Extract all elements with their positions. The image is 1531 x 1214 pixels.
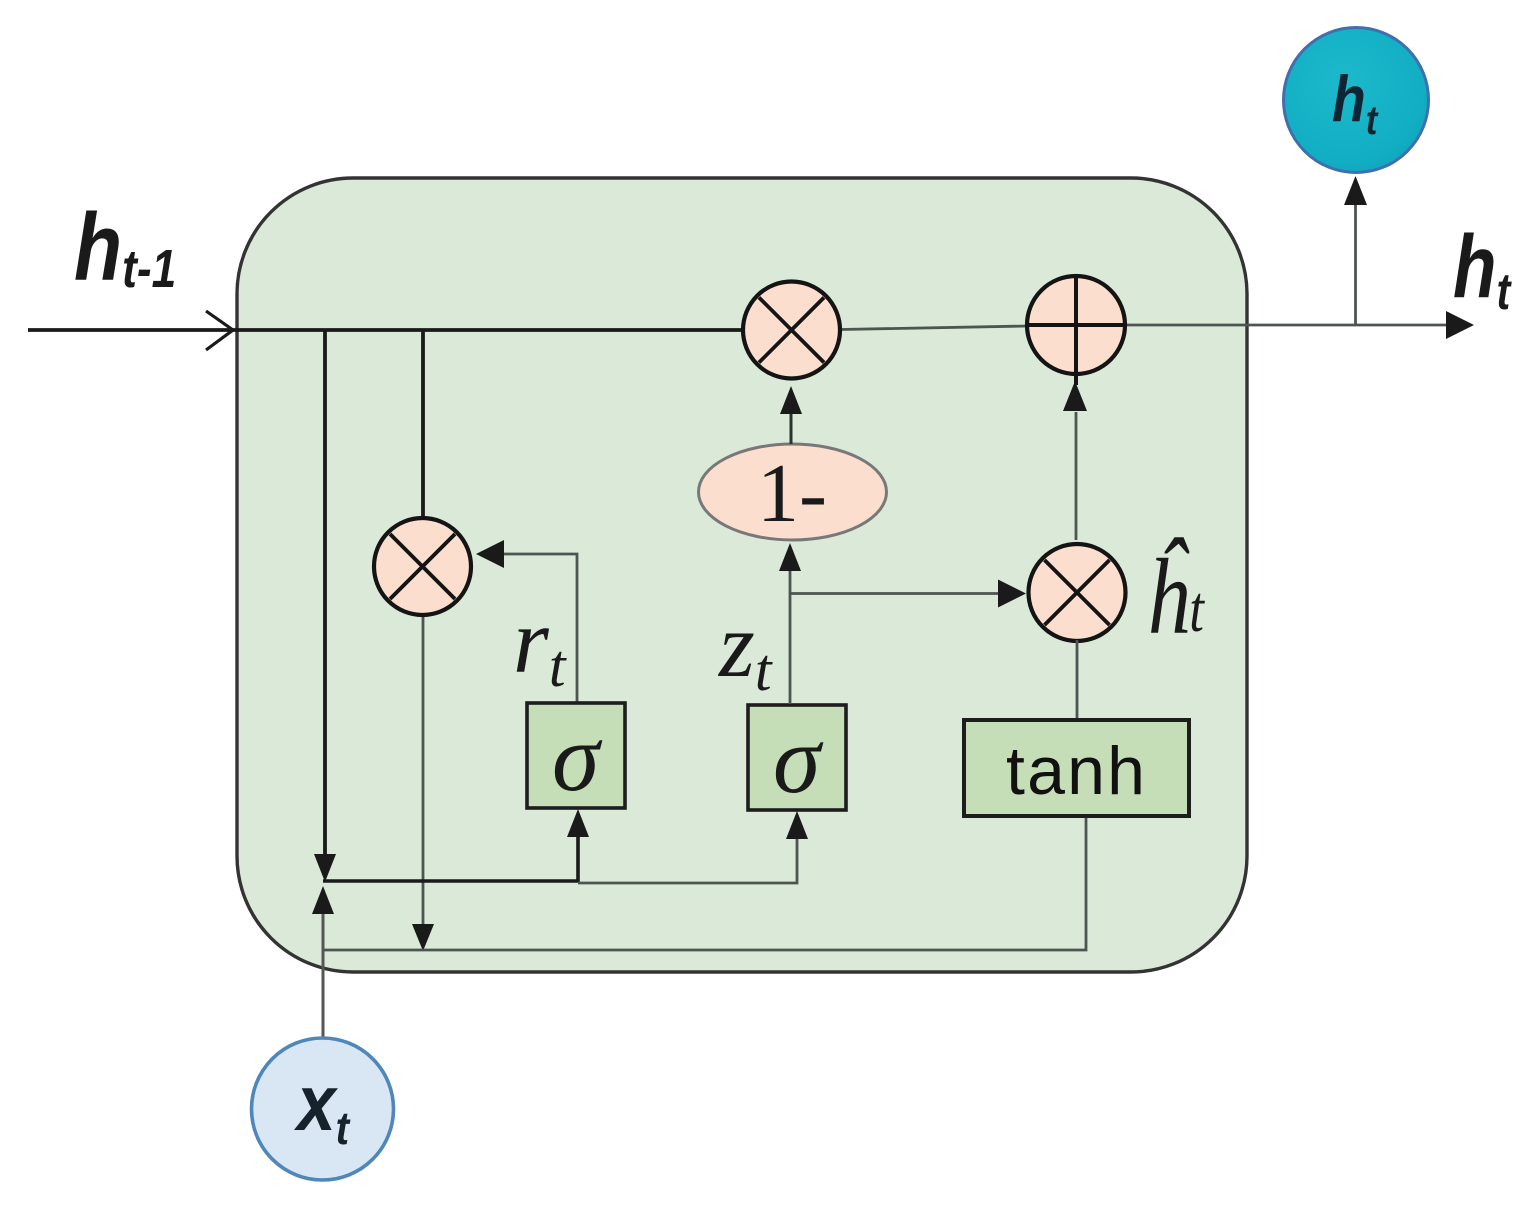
wire candidate multiply up to add <box>1075 412 1078 540</box>
node x(t) input circle (blue) <box>252 1038 394 1180</box>
sigma box sigma1 (reset gate) <box>527 703 625 808</box>
arrowhead up at junction <box>312 886 334 914</box>
arrowhead into reset multiply <box>476 540 504 568</box>
svg-text:tanh: tanh <box>1006 733 1147 809</box>
tanh box <box>964 720 1189 816</box>
wire h(t-1) input line <box>28 328 742 332</box>
arrowhead up into sigma1 <box>567 809 589 837</box>
1- ellipse <box>699 444 887 540</box>
GRU cell body (rounded rectangle) <box>237 178 1247 972</box>
wire drop to reset multiply (x=423) <box>421 330 425 518</box>
junction bus to sigma2 (gray) <box>578 836 797 883</box>
wire z(t) up to 1- ellipse <box>789 568 792 704</box>
sigma box sigma2 (update gate) <box>748 705 846 810</box>
wire add to output h(t) <box>1124 324 1452 327</box>
wire r(t) feedback from sigma1 to reset multiply <box>500 554 577 702</box>
wire 1- ellipse up to multiply <box>790 414 793 444</box>
wire z(t) branch to candidate multiply <box>790 592 1000 595</box>
arrowhead up into h(t) circle <box>1344 176 1367 205</box>
arrowhead down onto bottom bus <box>412 924 434 951</box>
wire x(t) up into junction <box>322 912 325 1040</box>
node h(t) output circle (teal) <box>1284 28 1429 173</box>
arrowhead up into add <box>1063 381 1087 411</box>
open chevron arrowhead at cell entry <box>206 311 233 350</box>
svg-text:σ: σ <box>552 704 603 811</box>
wire to output circle h(t) <box>1354 204 1357 325</box>
svg-text:σ: σ <box>773 706 824 813</box>
arrowhead up into 1- ellipse <box>779 543 801 571</box>
wire reset multiply down to bottom bus <box>422 615 425 926</box>
wire drop to junction (x=325) <box>323 330 327 858</box>
junction bus to sigma1 (black) <box>323 834 578 881</box>
multiply node (candidate, h-hat) <box>1029 544 1126 641</box>
add node (on main line) <box>1027 275 1125 385</box>
bottom bus to tanh <box>323 817 1086 950</box>
multiply node (update gate, on main line) <box>743 282 840 379</box>
wire candidate multiply down to tanh <box>1076 640 1079 719</box>
arrowhead into candidate multiply <box>998 580 1026 608</box>
wire multiply to add (main line) <box>840 326 1028 330</box>
arrowhead down onto junction line <box>314 854 336 882</box>
arrowhead up into top multiply <box>780 386 802 414</box>
arrowhead up into sigma2 <box>786 811 808 839</box>
arrowhead h(t) output <box>1446 311 1474 339</box>
multiply node (reset gate) <box>374 518 471 615</box>
svg-text:1-: 1- <box>757 447 827 540</box>
svg-text:ht: ht <box>1453 217 1512 320</box>
svg-text:ht-1: ht-1 <box>74 194 176 301</box>
